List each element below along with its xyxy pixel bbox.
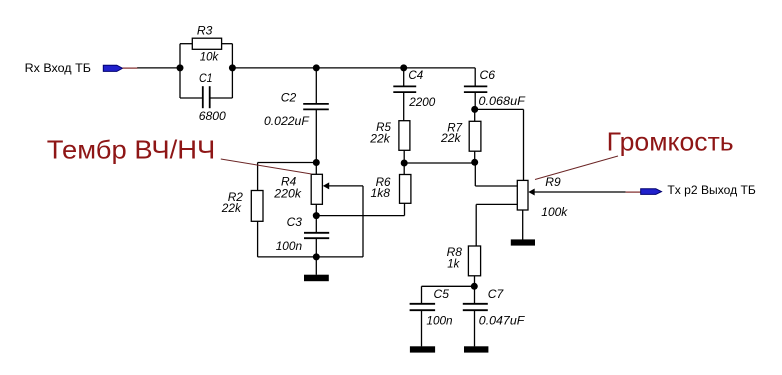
svg-text:100n: 100n (426, 314, 452, 328)
potentiometer R9 (517, 175, 568, 219)
svg-text:22k: 22k (369, 131, 390, 145)
svg-text:Rx Вход ТБ: Rx Вход ТБ (25, 61, 91, 75)
wire input to node A (137, 67, 180, 69)
wire R2 top vertical (257, 163, 259, 191)
svg-text:6800: 6800 (199, 109, 226, 123)
wire C5 top vertical (421, 286, 423, 304)
svg-text:C7: C7 (488, 287, 505, 301)
svg-text:0.022uF: 0.022uF (264, 114, 310, 128)
node A junction (177, 64, 184, 71)
wire R4 wiper vertical (362, 186, 364, 257)
output terminal marker (641, 189, 662, 195)
capacitor C7 (463, 287, 526, 328)
wire R9 tap to R8 vertical (475, 204, 477, 246)
svg-text:1k8: 1k8 (371, 186, 391, 200)
capacitor C2 (264, 91, 329, 128)
svg-text:22k: 22k (440, 131, 461, 145)
resistor R3 (192, 24, 221, 64)
resistor R2 (221, 190, 263, 221)
node C4-top junction (400, 64, 407, 71)
node G junction (401, 160, 408, 167)
capacitor C5 (410, 287, 453, 328)
capacitor C1 (199, 71, 226, 123)
wire wiper to node F (316, 256, 363, 258)
svg-text:C4: C4 (408, 68, 423, 82)
ground below R9 (511, 239, 535, 245)
wire R8 bottom to node J (474, 276, 476, 287)
wire R9 bottom to ground (522, 210, 524, 240)
capacitor C6 (464, 68, 526, 108)
wire R3C1 right vertical (231, 44, 233, 98)
wire R9 tap to R8 horizontal (476, 203, 517, 205)
svg-text:10k: 10k (200, 50, 219, 64)
wire node H down (474, 162, 476, 186)
output red link wire (626, 191, 641, 193)
resistor R7 (440, 121, 481, 152)
link line Тембр to R4 (221, 159, 312, 174)
svg-text:Tx p2 Выход ТБ: Tx p2 Выход ТБ (667, 183, 756, 197)
potentiometer R4 (273, 174, 329, 204)
wire node G to node H (404, 162, 475, 164)
svg-text:R3: R3 (197, 24, 213, 38)
wire R5 bottom to R6 top (403, 150, 405, 174)
wire C6 down vertical (474, 68, 476, 87)
svg-text:0.068uF: 0.068uF (479, 94, 527, 108)
wire C2 bottom to node D (315, 109, 317, 162)
wire R3 branch left (180, 43, 192, 45)
wire C6 bottom to node I (474, 92, 476, 109)
svg-text:C1: C1 (199, 71, 213, 85)
wire R7 bottom to node H (474, 151, 476, 162)
svg-text:C6: C6 (480, 68, 496, 82)
ground below C5 (410, 346, 435, 352)
wire C4 top (403, 68, 405, 87)
wire R9 wiper to output (534, 191, 626, 193)
wire R3C1 left vertical (179, 44, 181, 98)
node I junction (471, 106, 478, 113)
input terminal marker (103, 65, 122, 71)
svg-text:22k: 22k (221, 201, 242, 215)
wire R4 wiper horizontal (329, 185, 364, 187)
node D junction (313, 159, 320, 166)
svg-text:2200: 2200 (408, 95, 435, 109)
svg-text:0.047uF: 0.047uF (479, 314, 526, 328)
wire node J to C5 (422, 285, 475, 287)
wire C1 branch left (180, 97, 203, 99)
node J junction (471, 283, 478, 290)
node E junction (313, 212, 320, 219)
resistor R5 (369, 120, 410, 150)
svg-text:100k: 100k (541, 205, 568, 219)
resistor R6 (371, 175, 411, 204)
svg-text:C3: C3 (287, 215, 302, 229)
wire R2 bottom to node F (258, 256, 317, 258)
node B junction (229, 64, 236, 71)
wire node D to R4 top (315, 163, 317, 175)
wire C7 top vertical (474, 286, 476, 304)
svg-text:C2: C2 (281, 91, 297, 105)
wire R6 bottom vertical (404, 203, 406, 215)
capacitor C3 (276, 215, 330, 253)
wire node F to ground (315, 257, 317, 275)
svg-text:C5: C5 (434, 287, 450, 301)
svg-text:Громкость: Громкость (607, 126, 734, 156)
svg-text:1k: 1k (447, 257, 460, 271)
wire C5 to ground (421, 310, 423, 346)
wire node H stub to R9 (475, 185, 517, 187)
wire C3 bottom to node F (315, 238, 317, 257)
capacitor C4 (393, 68, 435, 109)
wire R2 bottom vertical (257, 221, 259, 257)
wire R4 bottom to C3 top (315, 204, 317, 233)
wire node E to R6 bottom (316, 215, 404, 217)
wire node D to R2 top (258, 162, 317, 164)
wire node I to R9 top horizontal (475, 108, 524, 110)
ground below C7 (464, 346, 488, 352)
wire C7 to ground (474, 310, 476, 346)
resistor R8 (447, 245, 481, 276)
wire R9 top vertical (523, 109, 525, 180)
wire C2 top (315, 68, 317, 104)
svg-text:220k: 220k (273, 186, 302, 200)
wire C4 to R5 (403, 92, 405, 121)
link line Громкость to R9 (535, 156, 618, 180)
wire C1 branch right (210, 97, 233, 99)
wire node B to C6 corner (232, 67, 475, 69)
wire node I to R7 top (474, 109, 476, 121)
svg-text:Тембр ВЧ/НЧ: Тембр ВЧ/НЧ (47, 135, 216, 165)
svg-text:R9: R9 (545, 175, 561, 189)
node C2-top junction (313, 64, 320, 71)
node H junction (471, 159, 478, 166)
wire R3 branch right (222, 43, 233, 45)
input red link wire (123, 67, 138, 69)
svg-text:100n: 100n (276, 239, 303, 253)
ground below C3 (304, 275, 329, 282)
node F junction (313, 253, 320, 260)
